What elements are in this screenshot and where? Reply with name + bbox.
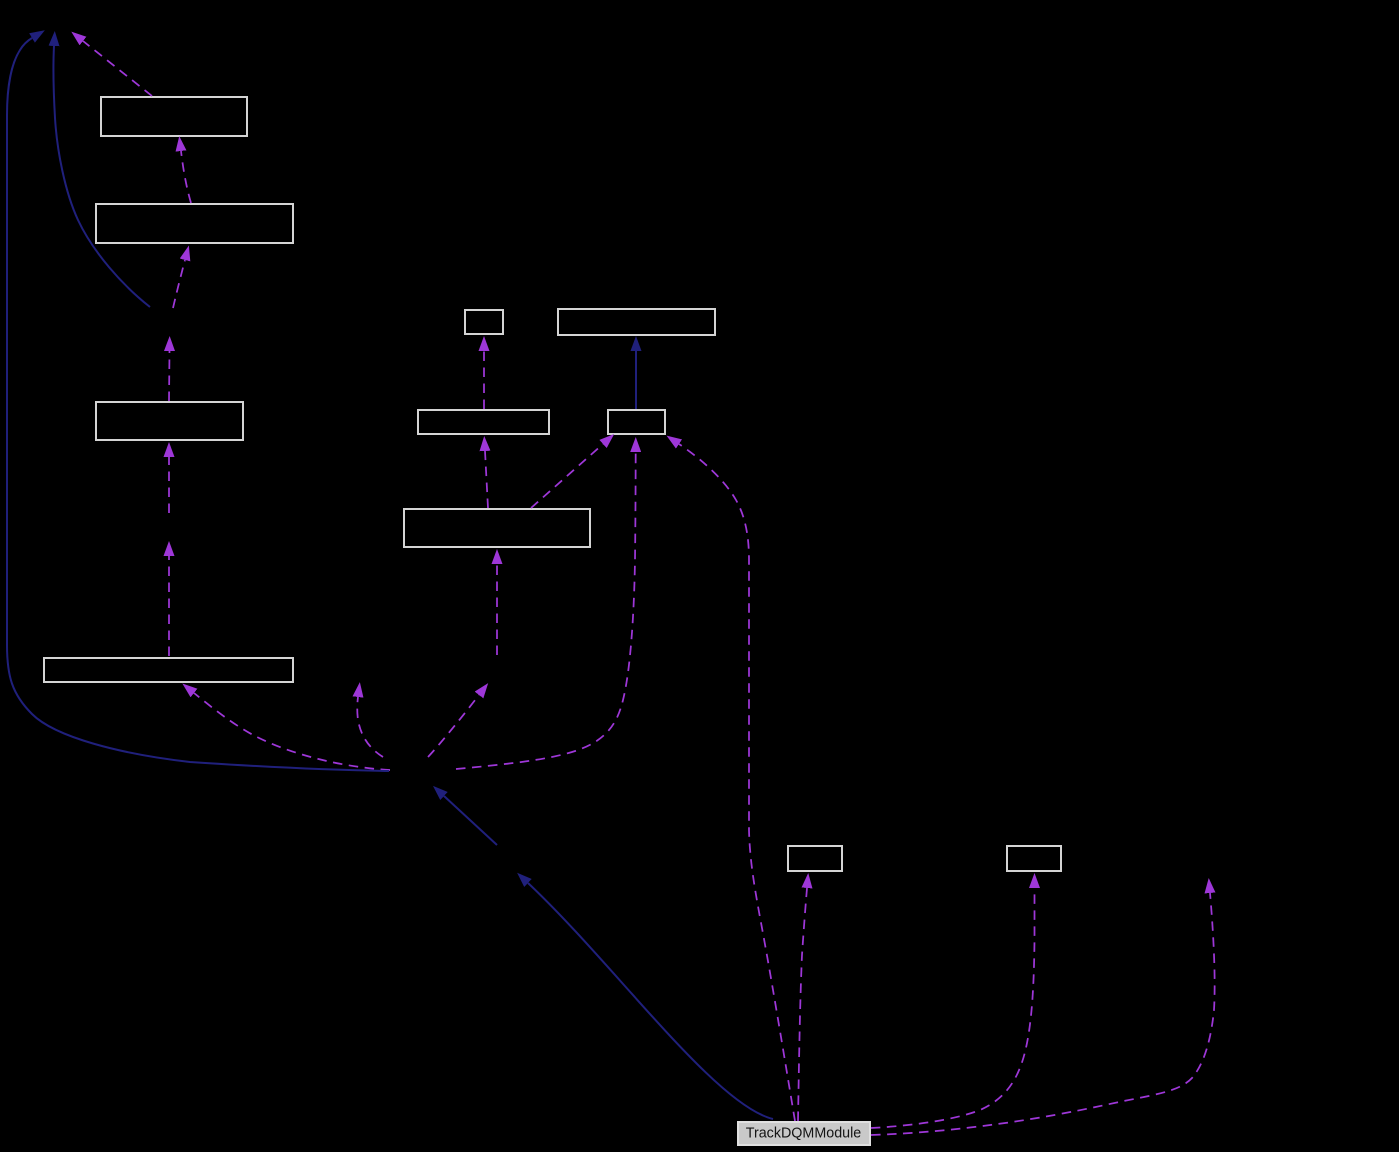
node H box bbox=[558, 309, 715, 335]
edge X2 to X4 (dashed) bbox=[428, 695, 479, 757]
svg-text:TrackDQMModule: TrackDQMModule bbox=[746, 1126, 862, 1142]
edge A to top-left (dashed) bbox=[83, 41, 152, 96]
edge X2 to I (dashed) bbox=[456, 452, 636, 769]
node E box bbox=[465, 310, 503, 334]
edge TrackDQMModule to I (dashed) bbox=[679, 444, 795, 1121]
node C box bbox=[96, 402, 243, 440]
edge X1 to top-left (blue) bbox=[53, 46, 150, 307]
edge B to A (dashed) bbox=[181, 151, 191, 203]
edge C to X1 (dashed) bbox=[168, 351, 171, 401]
node I box bbox=[608, 410, 665, 434]
edge TrackDQMModule to X6 (dashed) bbox=[871, 893, 1215, 1135]
edge X1 to B (dashed) bbox=[173, 260, 185, 308]
edge I to H (blue) bbox=[635, 351, 637, 409]
edge TrackDQMModule to X7 (blue) bbox=[528, 883, 773, 1119]
node K box bbox=[1007, 846, 1061, 871]
node J box bbox=[788, 846, 842, 871]
edge X5 to C (dashed) bbox=[168, 457, 170, 513]
edge X4 to G (dashed) bbox=[496, 564, 498, 655]
edge X2 to D (dashed) bbox=[194, 693, 390, 770]
edge TrackDQMModule to K (dashed) bbox=[871, 888, 1035, 1128]
edge F to E (dashed) bbox=[483, 351, 485, 409]
edge G to I (dashed) bbox=[531, 444, 603, 508]
node G box bbox=[404, 509, 590, 547]
edge TrackDQMModule to J (dashed) bbox=[798, 888, 807, 1121]
node TrackDQMModule box bbox=[738, 1122, 870, 1145]
edge X7 to X2 (blue) bbox=[444, 796, 497, 845]
edge G to F (dashed) bbox=[485, 451, 488, 508]
edge D to X5 (dashed) bbox=[168, 556, 170, 656]
node F box bbox=[418, 410, 549, 434]
edge X2 to X3 (dashed) bbox=[357, 697, 383, 757]
node A box bbox=[101, 97, 247, 136]
edge X2 to top-left (blue) bbox=[7, 38, 389, 771]
node D box bbox=[44, 658, 293, 682]
node B box bbox=[96, 204, 293, 243]
